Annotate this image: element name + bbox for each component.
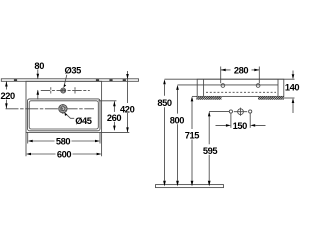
- arrow 140 bottom (up): [292, 98, 295, 103]
- arrow 420 top (down onto bar): [126, 74, 129, 79]
- arrow 420 bottom (down to bottom line): [126, 127, 129, 132]
- svg-text:Ø35: Ø35: [65, 66, 82, 76]
- arrow 800 floor: [176, 181, 179, 187]
- arrow 850 top: [163, 79, 166, 84]
- right view basin inner edges: [204, 79, 278, 96]
- arrow 80 bottom (up to centerline): [37, 90, 40, 95]
- arrow 260 top (up): [113, 101, 116, 106]
- arrow 280 right: [254, 69, 259, 72]
- svg-text:715: 715: [185, 131, 200, 141]
- dim 715 line: [191, 101, 193, 180]
- bowl inner rounded rect: [29, 101, 98, 129]
- arrow 800 top: [176, 85, 179, 90]
- svg-text:150: 150: [233, 121, 248, 131]
- arrow O35 leader: [64, 84, 67, 88]
- dim 850 line: [164, 84, 166, 181]
- hatched pad right: [258, 97, 284, 100]
- wall bar (plan view top): [1, 79, 138, 82]
- arrow 715 floor: [191, 181, 194, 187]
- arrow 580 left: [28, 140, 33, 143]
- dim 80 line: [37, 70, 39, 100]
- arrow 850 floor: [163, 181, 166, 187]
- arrow 150 left (points right): [226, 124, 231, 127]
- ext line for 260 top: [98, 100, 116, 102]
- svg-text:580: 580: [56, 137, 71, 147]
- ext line 140 bottom: [284, 97, 295, 99]
- svg-text:800: 800: [170, 115, 185, 125]
- ext 150 left: [230, 113, 232, 128]
- dim 600 line: [30, 153, 99, 155]
- arrow 600 left: [26, 153, 31, 156]
- svg-text:80: 80: [34, 61, 44, 71]
- svg-text:420: 420: [120, 104, 135, 114]
- cross left tick: [50, 87, 52, 94]
- drain centerline horizontal: [6, 108, 95, 110]
- dim 260 line: [113, 101, 115, 130]
- svg-text:Ø45: Ø45: [75, 116, 92, 126]
- dim 150 tails: [216, 124, 266, 126]
- svg-text:260: 260: [107, 113, 122, 123]
- tap hole circle right: [256, 84, 260, 88]
- drain fitting centerlines: [234, 108, 247, 116]
- ext 595: [209, 110, 229, 112]
- arrow 260 bottom (down): [113, 126, 116, 131]
- dim 280 line: [221, 69, 260, 71]
- deck line + 800 extension: [178, 84, 279, 86]
- faucet centerline: [41, 90, 90, 92]
- ext 150 right: [249, 113, 251, 128]
- leader line O35: [64, 75, 67, 86]
- hatched pad left: [196, 97, 221, 100]
- ext 715: [192, 95, 197, 97]
- arrow O45 leader: [64, 112, 67, 116]
- dim 580 line: [31, 140, 96, 142]
- tap hole circle left: [221, 84, 225, 88]
- arrow 140 top (down): [292, 74, 295, 79]
- arrow 600 right: [97, 153, 102, 156]
- dim 140 line: [292, 71, 294, 114]
- dim 800 line: [177, 90, 179, 181]
- floor bar: [156, 185, 224, 188]
- drain fitting circle: [238, 109, 244, 115]
- arrow 220 top (up to bar): [5, 82, 8, 87]
- arrow 80 top (down onto bar): [37, 74, 40, 79]
- bowl outer rounded rect: [28, 99, 101, 131]
- mounting hole left: [229, 110, 232, 113]
- arrow 595 floor: [208, 181, 211, 187]
- svg-text:280: 280: [234, 66, 249, 76]
- cross right tick: [74, 87, 76, 94]
- svg-text:595: 595: [203, 146, 218, 156]
- svg-text:600: 600: [57, 149, 72, 159]
- ext lines 580/600 left: [26, 132, 28, 156]
- ext 280 right: [258, 67, 260, 84]
- mounting hole right: [249, 110, 252, 113]
- faucet hole circles: [61, 88, 66, 93]
- dim 420 line: [127, 71, 129, 132]
- svg-text:140: 140: [285, 82, 300, 92]
- wall bar ticks: [14, 79, 126, 81]
- right view basin outer rect: [197, 79, 284, 96]
- dashed hidden line: [206, 91, 276, 93]
- basin outer rect (plan): [26, 81, 102, 132]
- arrow 280 left: [221, 69, 226, 72]
- drain centerline vertical: [62, 104, 64, 114]
- ext line bottom right for 420: [102, 131, 130, 133]
- drain circles: [59, 105, 67, 113]
- arrow 580 right: [95, 140, 100, 143]
- ext 280 left: [220, 67, 222, 84]
- arrow 220 bottom (down to drain centerline): [5, 103, 8, 108]
- leader line O45: [65, 114, 74, 119]
- dim 220 line: [5, 82, 7, 109]
- svg-text:220: 220: [1, 91, 16, 101]
- svg-text:850: 850: [157, 98, 172, 108]
- arrow 715 top: [191, 96, 194, 101]
- right view: top line with extensions: [165, 78, 295, 80]
- arrow 595 top: [208, 111, 211, 116]
- dim 595 line: [208, 116, 210, 180]
- arrow 150 right (points left): [250, 124, 255, 127]
- ext lines 580/600 right: [100, 132, 102, 156]
